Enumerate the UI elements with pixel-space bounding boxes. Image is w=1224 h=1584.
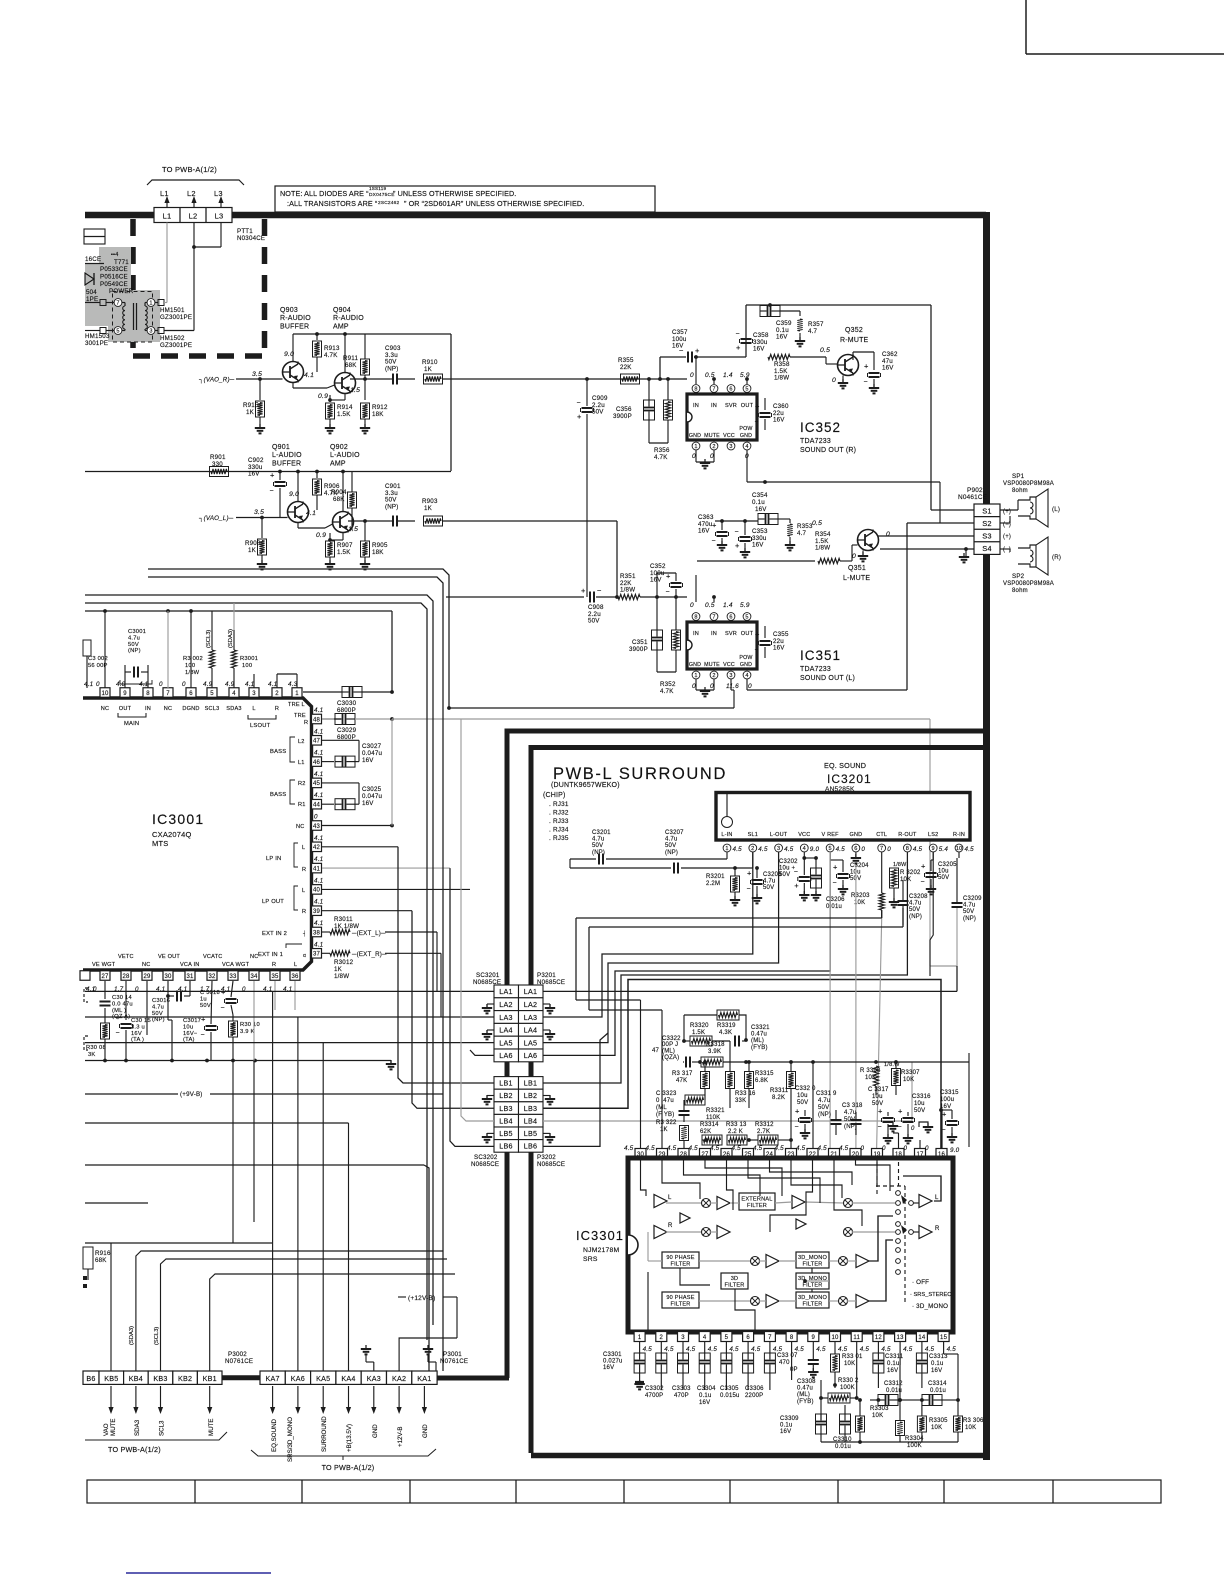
svg-text:N0761CE: N0761CE [440,1358,468,1365]
svg-text:9: 9 [812,1335,816,1341]
svg-text:α: α [303,953,306,959]
speaker SP2 [1000,537,1061,575]
svg-text:TO PWB-A(1/2): TO PWB-A(1/2) [108,1445,161,1454]
svg-text:32: 32 [208,974,216,980]
svg-text:+12V-B: +12V-B [397,1427,404,1447]
svg-text:4.1: 4.1 [314,750,323,757]
svg-text:16V: 16V [362,757,374,764]
svg-text:4.1: 4.1 [314,707,323,714]
label SP1 [1003,473,1054,494]
bracket LSOUT [248,715,276,729]
svg-text:3.5: 3.5 [254,509,264,516]
svg-text:0.1u: 0.1u [887,1361,899,1367]
svg-text:C356: C356 [616,406,632,413]
wire KB4 up [136,1251,443,1371]
label Q903 [280,307,311,330]
svg-text:┤: ┤ [302,930,307,937]
svg-text:. RJ33: . RJ33 [549,818,569,825]
svg-text:3D_MONO: 3D_MONO [798,1295,828,1301]
wire pin36 down [294,981,296,1010]
svg-text:POW: POW [739,426,752,432]
capacitor C3309b [821,1405,900,1442]
svg-text:GND: GND [689,662,701,668]
svg-text:C3208: C3208 [909,894,928,900]
svg-text:16V: 16V [650,577,662,584]
IC3001 right pin labels [258,713,308,959]
label EQ SOUND IC3201 [824,761,872,793]
svg-text:−: − [735,529,739,536]
junction gray [391,719,393,826]
svg-text:+: + [942,1110,947,1119]
svg-text:8: 8 [906,846,909,852]
svg-text:0.1u: 0.1u [780,1423,792,1429]
svg-text:4.1: 4.1 [306,510,316,517]
label P3202 [537,1154,565,1168]
svg-text:16V: 16V [752,542,764,549]
svg-text:C331 9: C331 9 [816,1091,837,1097]
svg-text:L: L [302,845,305,851]
svg-text:NC: NC [164,706,172,712]
value 4.1 [304,372,314,379]
svg-text:R356: R356 [654,447,670,454]
value 0 Q352 [832,377,836,384]
labels HM1501 HM1502 [160,307,192,349]
svg-text:+: + [898,1107,903,1116]
wire pin29 down [146,981,148,1035]
ground R905 [360,560,370,569]
svg-text:L-AUDIO: L-AUDIO [272,452,302,459]
svg-text:4.1: 4.1 [304,372,314,379]
IC3301 amp R in [654,1223,673,1239]
svg-text:10K: 10K [844,1361,855,1367]
wire into S3 [943,535,974,537]
svg-text:56 00P: 56 00P [88,663,108,669]
svg-text:11.6: 11.6 [726,683,739,690]
svg-text:11: 11 [853,1335,860,1341]
capacitor C3317 [868,1087,895,1143]
svg-text:0: 0 [159,681,163,688]
capacitor C354 [715,492,790,525]
svg-text:C3 318: C3 318 [842,1103,863,1109]
svg-text:KA2: KA2 [392,1374,406,1383]
svg-text:R908: R908 [245,540,261,547]
svg-text:NJM2178M: NJM2178M [583,1247,619,1254]
svg-text:R: R [302,909,306,915]
svg-text:L3: L3 [215,212,224,221]
wire L1 down [164,223,167,303]
svg-text:C3017: C3017 [183,1018,201,1024]
resistor R352 [657,597,681,695]
svg-text:31: 31 [186,974,194,980]
svg-text:C3302: C3302 [645,1386,664,1392]
IC3301 amp L in [654,1195,672,1208]
wire KB3 up [161,1165,448,1371]
svg-text:41: 41 [313,866,321,872]
svg-text:VCATC: VCATC [203,954,223,960]
capacitor C3014 [100,981,133,1023]
wire l-audio rail [85,470,451,512]
capacitor C351 [629,597,663,672]
svg-text:1.5K: 1.5K [692,1030,705,1036]
wire network bus [760,1053,969,1064]
svg-text:3: 3 [729,673,732,679]
wire LB1 feed [398,847,494,1083]
svg-text:−: − [747,886,751,893]
svg-text:· 3D_MONO: · 3D_MONO [912,1303,948,1310]
svg-text:R3311: R3311 [770,1088,789,1094]
svg-text:50V: 50V [200,1003,211,1009]
svg-text:10u: 10u [850,870,861,876]
label Q904 [333,307,364,330]
capacitor C3316 [911,1094,933,1132]
svg-text:C3027: C3027 [362,743,382,750]
switch mode dashes [876,1162,905,1303]
svg-text:6: 6 [854,846,857,852]
wire mesh LA5 [543,852,779,1043]
wire pin40 [322,889,470,1050]
capacitor C3308 [797,1342,819,1405]
svg-text:4.1: 4.1 [314,941,323,948]
svg-text:8: 8 [790,1335,794,1341]
svg-text:18K: 18K [372,549,384,556]
ground C362 [869,384,879,393]
ground R357 [795,337,805,346]
wire gray drop 19 [877,918,882,1149]
svg-text:TO PWB-A(1/2): TO PWB-A(1/2) [162,165,217,174]
svg-text:R911: R911 [343,355,358,362]
svg-text:OUT: OUT [741,403,754,409]
IC3301 mult 6 [751,1297,760,1306]
svg-text:R3315: R3315 [755,1071,774,1077]
svg-text:4.5: 4.5 [729,1346,739,1353]
svg-text:PTT1: PTT1 [237,228,253,235]
IC3301 amp small [680,1213,690,1223]
svg-text:0.01u: 0.01u [930,1388,946,1394]
label SCL3 vert [206,595,212,648]
svg-text:100: 100 [242,663,252,669]
IC351 pin values top [690,602,750,609]
svg-text:−: − [755,419,759,426]
wire pin3 up [254,674,277,688]
wire C3030 [303,690,394,719]
wire c3315 box [968,1062,970,1147]
svg-text:R33 01: R33 01 [842,1354,863,1360]
svg-text:+: + [921,862,926,871]
wire Q903-Q904 [293,382,335,388]
svg-text:4.5: 4.5 [838,1346,848,1353]
label IC3301 [576,1228,624,1263]
capacitor C902 [248,457,287,517]
svg-text:8ohm: 8ohm [1012,588,1028,594]
svg-text:50V: 50V [665,843,676,849]
IC3301 mult 4 [844,1228,853,1237]
svg-text:C3322: C3322 [662,1036,681,1042]
svg-text:16V−: 16V− [183,1031,198,1037]
svg-text:L1: L1 [160,189,169,198]
wire mesh LA6 [543,852,830,1055]
svg-text:L-IN: L-IN [721,832,732,838]
capacitor C909 [577,379,608,597]
svg-text:IN: IN [693,631,699,637]
resistor R915 [243,379,265,428]
svg-text:P0533CE: P0533CE [100,266,128,273]
svg-text:R3305: R3305 [929,1418,948,1424]
IC352 outline [687,394,757,440]
wire Q901-Q902 [298,523,333,529]
svg-text:100K: 100K [840,1385,855,1391]
transistor Q903 [283,362,304,383]
svg-text:68K: 68K [333,496,345,503]
svg-text:R: R [272,962,276,968]
svg-text:P0516CE: P0516CE [100,274,128,281]
wire mesh LA1 [543,966,957,991]
svg-text:GND: GND [372,1424,379,1438]
3d mono filter 3 [796,1292,829,1308]
svg-text:1/8.W: 1/8.W [884,1062,900,1068]
resistor R3301 [831,1342,864,1388]
svg-text:10K: 10K [965,1425,976,1431]
resistor R901 [210,454,229,477]
svg-text:+B(13.5V): +B(13.5V) [346,1424,353,1452]
svg-text:−: − [755,647,759,654]
svg-text:4.7u: 4.7u [763,879,775,885]
svg-text:L: L [252,706,255,712]
svg-text:Q351: Q351 [848,565,866,572]
svg-text:C30 14: C30 14 [112,995,132,1001]
svg-text:4: 4 [745,444,748,450]
svg-text:R915: R915 [243,402,259,409]
svg-text:GZ3001PE: GZ3001PE [160,342,192,349]
svg-text:42: 42 [313,845,321,851]
svg-text:C3201: C3201 [592,830,611,836]
svg-text:L2: L2 [189,212,198,221]
90 phase filter 2 [662,1292,699,1308]
label SDA3 vert2 [129,1326,135,1345]
IC3301 amp 9 [856,1255,869,1268]
ground R907 [325,560,335,569]
node marks left edge [83,1276,87,1288]
svg-text:LA5: LA5 [499,1038,512,1047]
IC3301 outline [628,1158,953,1332]
svg-text:LB1: LB1 [499,1079,512,1088]
svg-text:50V: 50V [592,843,603,849]
IC3301 mult 3 [844,1199,853,1208]
svg-text:+: + [577,412,582,421]
ground IC3201 GND pin [851,852,861,863]
svg-text:68K: 68K [345,362,357,369]
svg-text:MAIN: MAIN [124,721,139,727]
ground IC351 pins [696,679,714,696]
svg-text:16V: 16V [755,506,767,513]
svg-text:4700P: 4700P [645,1393,663,1399]
svg-text:. RJ35: . RJ35 [549,835,569,842]
svg-text:SDA3: SDA3 [134,1419,141,1436]
svg-text:DGND: DGND [182,706,199,712]
wire pin42 [322,846,398,848]
resistor R3304 [896,1400,925,1449]
value 0 Q351 [852,531,890,560]
svg-text:(F YB): (F YB) [656,1112,674,1118]
svg-text:37: 37 [313,952,321,958]
labels KB signals [103,1418,215,1436]
svg-text:LB2: LB2 [524,1091,537,1100]
title block frame [1026,0,1224,54]
svg-text:R: R [935,1226,940,1232]
svg-text:LA1: LA1 [499,987,512,996]
svg-text:−: − [577,400,581,407]
svg-text:MUTE: MUTE [208,1418,215,1436]
svg-text:1u: 1u [200,996,207,1002]
wire r-audio rail [293,332,451,471]
bottom revision table [87,1480,1161,1503]
resistor R910 [422,359,589,384]
capacitor C3207 [570,830,753,874]
svg-text:470P: 470P [674,1393,689,1399]
svg-text:LSOUT: LSOUT [250,723,271,729]
svg-text:4.5: 4.5 [624,1145,634,1152]
svg-text:P3002: P3002 [228,1351,247,1358]
resistor R351 [618,573,687,600]
svg-text:R3 002: R3 002 [183,656,203,662]
svg-text:0.01u: 0.01u [826,904,842,910]
grounds top pins right [888,1110,942,1148]
svg-text:4.7K: 4.7K [654,454,668,461]
wire IC352 in [614,357,716,384]
capacitor C360 [747,398,789,452]
svg-text:V REF: V REF [821,832,839,838]
svg-text:IC352: IC352 [800,420,841,435]
svg-text:(NP): (NP) [818,1112,831,1118]
svg-text:R: R [668,1223,673,1229]
connector P3002 KB1-KB6 [83,1371,222,1384]
thick right bus [983,212,990,1460]
svg-text:BUFFER: BUFFER [280,323,309,330]
arrows into PTT1 [164,196,223,211]
svg-text:KA6: KA6 [291,1374,305,1383]
svg-text:SP2: SP2 [1012,573,1025,580]
svg-text:R: R [275,706,279,712]
svg-text:3D_MONO: 3D_MONO [798,1255,828,1261]
svg-text:10: 10 [831,1335,839,1341]
svg-text:4.5: 4.5 [753,1145,763,1152]
svg-text:Q901: Q901 [272,444,290,451]
svg-text:VSP0080P8M98A: VSP0080P8M98A [1003,481,1054,487]
svg-text:4.7: 4.7 [797,530,807,537]
svg-text:4.7u: 4.7u [963,903,975,909]
svg-text:R3201: R3201 [706,874,725,880]
svg-text:BASS: BASS [270,749,286,755]
svg-text:50V: 50V [763,885,774,891]
svg-text:4.1: 4.1 [139,681,148,688]
svg-text:6: 6 [746,1335,750,1341]
capacitor C3205 [921,852,958,894]
wire mesh LB4 [543,1062,912,1121]
svg-text:R30 08: R30 08 [86,1045,106,1051]
svg-text:R3314: R3314 [700,1122,719,1128]
svg-text:50V: 50V [914,1108,925,1114]
wire pin35 down [274,981,276,1010]
label SRS_STEREO [910,1292,952,1298]
svg-text:R3304: R3304 [905,1436,924,1442]
svg-text:L1: L1 [298,760,305,766]
svg-text:C3030: C3030 [337,700,357,707]
svg-text:0: 0 [904,1145,908,1152]
svg-text:(NP): (NP) [665,850,678,856]
svg-text:0.1u: 0.1u [931,1361,943,1367]
label OFF [912,1279,929,1286]
svg-text:3.9K: 3.9K [708,1049,721,1055]
IC3301 amp R out [919,1226,940,1239]
svg-text:(SCL3): (SCL3) [206,630,212,648]
svg-text:VCC: VCC [798,832,810,838]
svg-text:LA5: LA5 [524,1038,537,1047]
svg-text:R905: R905 [372,542,388,549]
svg-text:1/8W: 1/8W [774,375,789,382]
IC351 pins top [692,613,751,621]
resistor R3303 [856,1398,890,1444]
svg-text:C3206: C3206 [826,897,845,903]
IC3301 inner gray wires [648,1202,895,1301]
svg-text:1: 1 [694,444,697,450]
svg-text:SOUND OUT (R): SOUND OUT (R) [800,447,856,454]
wire LB4 feed gray [461,719,494,1121]
svg-text:C3016: C3016 [152,998,170,1004]
svg-text:EQ.SOUND: EQ.SOUND [271,1418,278,1452]
svg-text:0.5: 0.5 [812,520,822,527]
capacitor C3322 [652,1036,702,1068]
wire Q902 out [328,519,390,542]
svg-text:43: 43 [313,824,321,830]
value 9.0 [284,351,294,358]
svg-text:LA6: LA6 [499,1051,512,1060]
label SCL3 vert2 [154,1327,160,1345]
svg-text:R3 322: R3 322 [656,1120,677,1126]
PWB-L board outline [531,748,990,1456]
svg-text:(+): (+) [1003,534,1011,540]
svg-text:(CHIP): (CHIP) [543,792,566,799]
resistor R3314 [684,1122,722,1145]
svg-text:3.9 K: 3.9 K [240,1029,255,1035]
svg-text:” OR “2SD601AR” UNLESS OTHERWI: ” OR “2SD601AR” UNLESS OTHERWISE SPECIFI… [404,199,584,208]
ground KA3 [361,1345,374,1371]
svg-text:3900P: 3900P [629,646,648,653]
svg-text:LB6: LB6 [499,1142,512,1151]
capacitor C3002 [83,640,108,688]
wire KA6 up [297,1017,299,1371]
svg-text:4.1: 4.1 [314,792,323,799]
svg-text:22K: 22K [620,364,632,371]
svg-text:8: 8 [146,691,150,697]
svg-text:+: + [201,1015,206,1024]
svg-text:50V: 50V [152,1011,163,1017]
wire 12V-B [398,1295,457,1371]
svg-text:. RJ31: . RJ31 [549,801,569,808]
svg-text:9: 9 [932,846,935,852]
svg-text:+: + [755,630,760,639]
svg-text:LB3: LB3 [499,1104,512,1113]
IC3001 bottom pins [80,971,300,993]
capacitor C3210 [804,856,821,900]
wire bus e [85,609,392,692]
resistor R3308 [860,1066,881,1095]
svg-text:47: 47 [313,739,321,745]
svg-text:2SC2462: 2SC2462 [378,200,400,206]
label SC3201 [473,972,501,986]
capacitor C3317b [898,1107,915,1144]
transistor Q352 [838,355,859,376]
wire vao bus b [148,577,443,1371]
svg-text:68K: 68K [95,1257,107,1264]
